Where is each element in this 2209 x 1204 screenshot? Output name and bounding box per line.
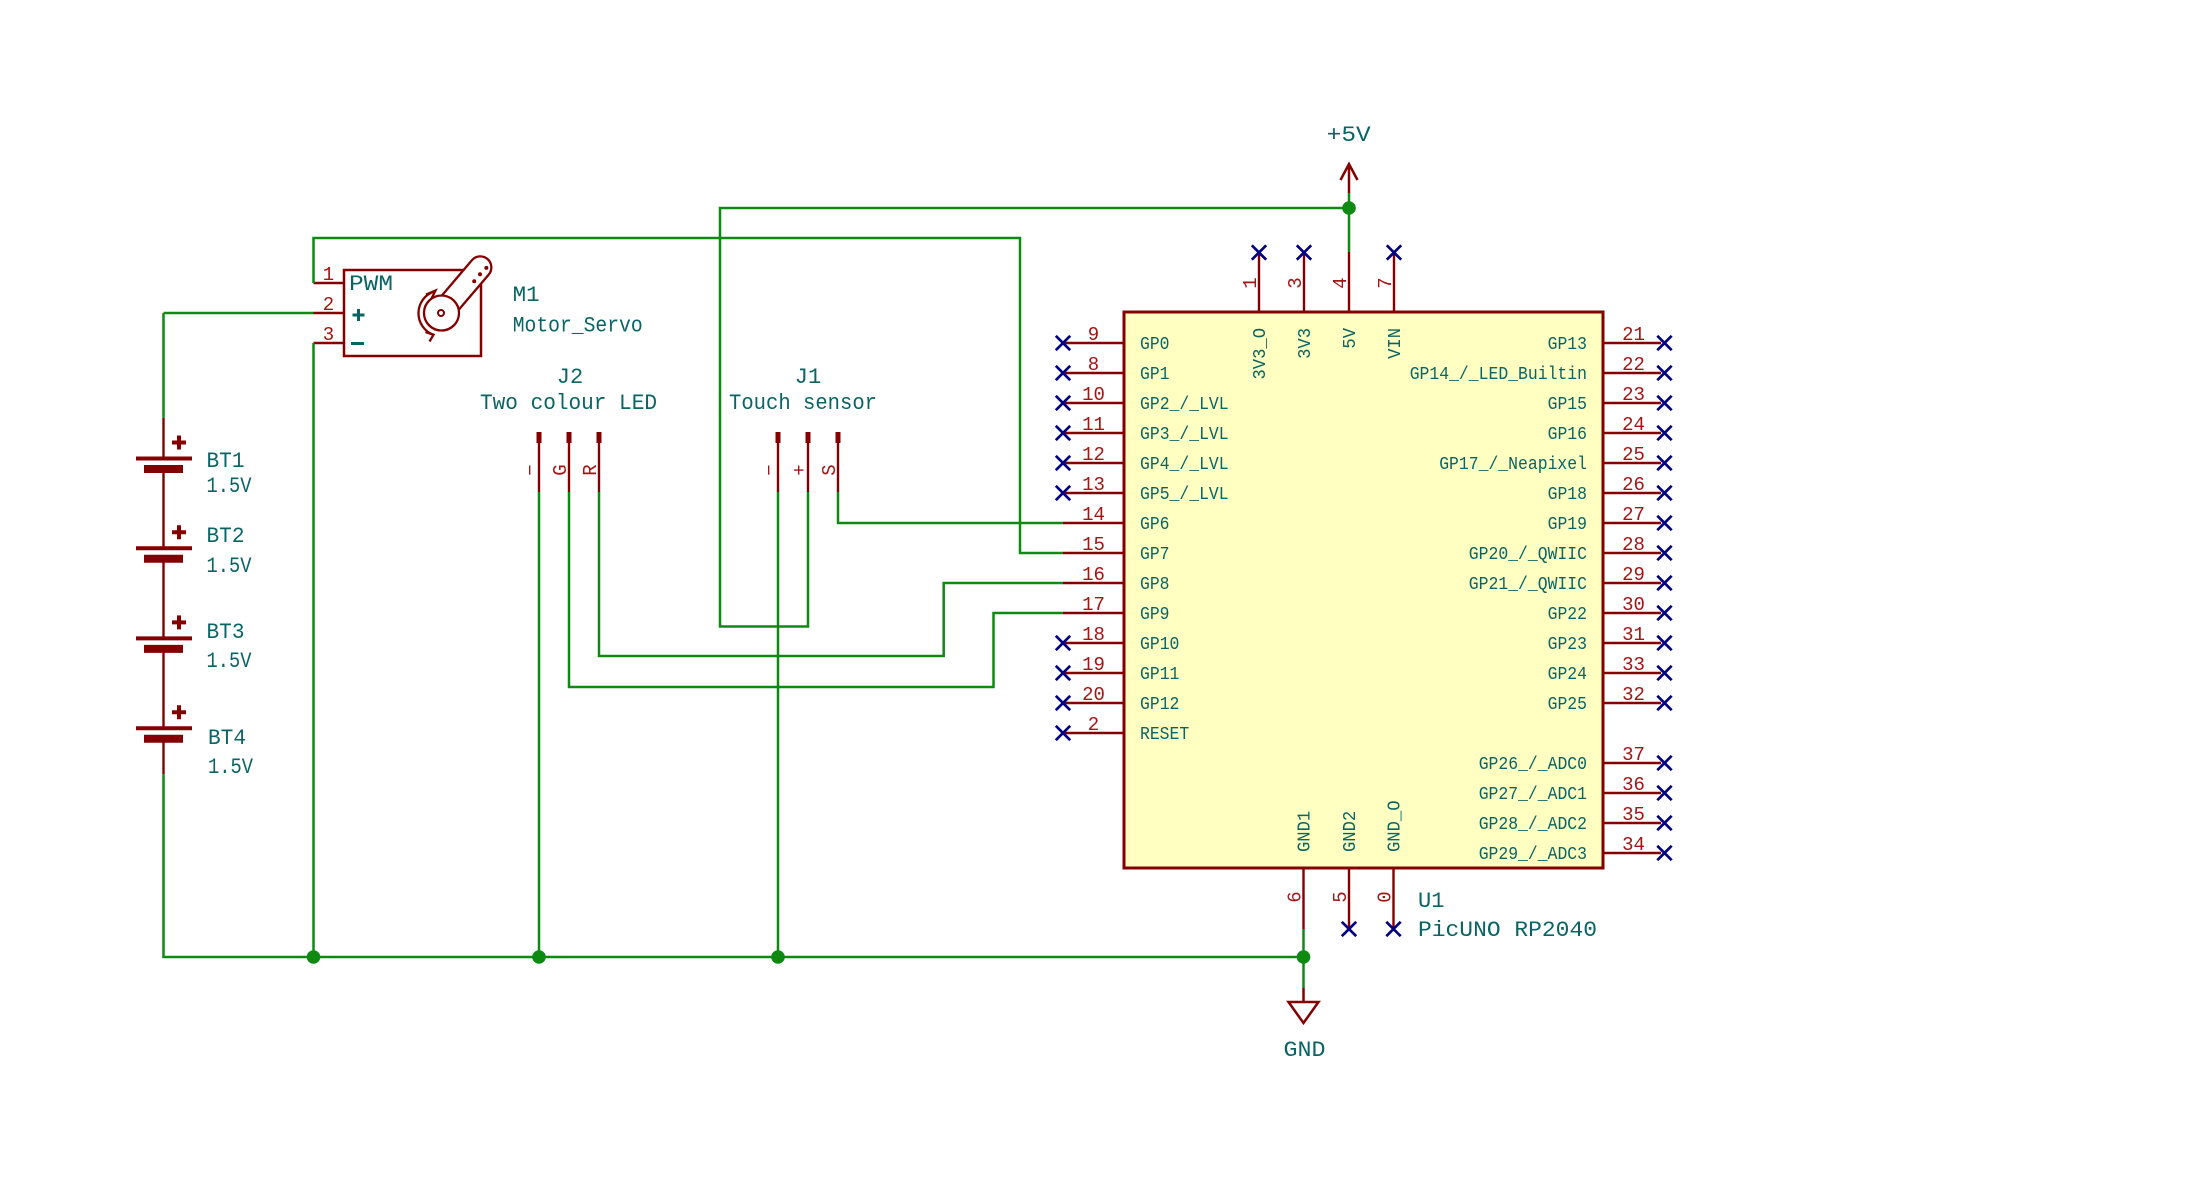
U1 pin 14 GP6 [1063, 504, 1170, 535]
U1 pin 18 GP10 no-connect [1056, 624, 1180, 655]
svg-text:18: 18 [1082, 624, 1105, 646]
wire GND1 to ground [1302, 929, 1305, 988]
svg-text:GP26_/_ADC0: GP26_/_ADC0 [1479, 755, 1587, 775]
svg-text:GP24: GP24 [1548, 665, 1587, 685]
U1 pin 28 GP20_/_QWIIC no-connect [1469, 534, 1672, 565]
svg-text:1.5V: 1.5V [207, 554, 253, 579]
svg-text:25: 25 [1622, 444, 1645, 466]
svg-text:+5V: +5V [1327, 123, 1372, 148]
svg-text:30: 30 [1622, 594, 1645, 616]
M1 pin name + [353, 309, 365, 321]
U1 pin 35 GP28_/_ADC2 no-connect [1479, 804, 1672, 835]
svg-text:1.5V: 1.5V [208, 755, 254, 780]
svg-text:GP18: GP18 [1548, 485, 1587, 505]
J1 pin + [789, 432, 811, 492]
svg-text:GP9: GP9 [1140, 605, 1170, 625]
U1 pin 24 GP16 no-connect [1548, 414, 1672, 445]
svg-text:9: 9 [1088, 324, 1099, 346]
svg-text:GP20_/_QWIIC: GP20_/_QWIIC [1469, 545, 1587, 565]
wire ground bus [164, 774, 1304, 957]
svg-text:11: 11 [1082, 414, 1105, 436]
svg-text:23: 23 [1622, 384, 1645, 406]
svg-text:GP8: GP8 [1140, 575, 1170, 595]
wire J2 G to GP9 [569, 492, 1063, 687]
U1 pin 11 GP3_/_LVL no-connect [1056, 414, 1229, 445]
svg-text:BT1: BT1 [207, 449, 245, 474]
wire M1 PWM to GP7 [314, 238, 1064, 553]
U1 pin 29 GP21_/_QWIIC no-connect [1469, 564, 1672, 595]
svg-text:GND1: GND1 [1296, 811, 1316, 852]
svg-text:7: 7 [1375, 277, 1397, 288]
U1 reference and value labels [1418, 889, 1597, 943]
junction [1342, 201, 1356, 215]
U1 pin 15 GP7 [1063, 534, 1170, 565]
svg-text:PicUNO RP2040: PicUNO RP2040 [1418, 918, 1597, 943]
connector J2 labels [480, 365, 657, 416]
svg-text:GP3_/_LVL: GP3_/_LVL [1140, 425, 1229, 445]
svg-text:U1: U1 [1418, 889, 1444, 914]
svg-text:GP23: GP23 [1548, 635, 1587, 655]
svg-text:1.5V: 1.5V [207, 649, 253, 674]
svg-text:28: 28 [1622, 534, 1645, 556]
svg-text:GND2: GND2 [1341, 811, 1361, 852]
U1 pin 25 GP17_/_Neapixel no-connect [1439, 444, 1672, 475]
svg-text:GP4_/_LVL: GP4_/_LVL [1140, 455, 1229, 475]
svg-text:3V3_O: 3V3_O [1251, 328, 1271, 380]
U1 pin 26 GP18 no-connect [1548, 474, 1672, 505]
svg-text:−: − [520, 464, 542, 475]
svg-text:1: 1 [323, 264, 334, 286]
battery BT1 [136, 436, 252, 500]
U1 pin 31 GP23 no-connect [1548, 624, 1672, 655]
svg-text:S: S [819, 464, 841, 475]
svg-text:35: 35 [1622, 804, 1645, 826]
U1 pin 13 GP5_/_LVL no-connect [1056, 474, 1229, 505]
svg-text:GP19: GP19 [1548, 515, 1587, 535]
J2 pin − [520, 432, 542, 492]
svg-text:GP28_/_ADC2: GP28_/_ADC2 [1479, 815, 1587, 835]
svg-text:16: 16 [1082, 564, 1105, 586]
wire battery top [162, 313, 165, 418]
power symbol +5V [1327, 123, 1372, 193]
IC U1 body [1124, 312, 1603, 868]
U1 pin 23 GP15 no-connect [1548, 384, 1672, 415]
motor-servo M1 body [344, 256, 491, 356]
U1 pin 36 GP27_/_ADC1 no-connect [1479, 774, 1672, 805]
svg-text:+: + [789, 464, 811, 475]
connector J1 labels [729, 365, 877, 416]
battery BT3 [136, 615, 252, 674]
svg-text:GP15: GP15 [1548, 395, 1587, 415]
junction [307, 950, 321, 964]
svg-text:1: 1 [1240, 277, 1262, 288]
svg-text:10: 10 [1082, 384, 1105, 406]
wire +5V to J1+ [720, 208, 1349, 627]
svg-text:GP1: GP1 [1140, 365, 1170, 385]
svg-text:32: 32 [1622, 684, 1645, 706]
svg-text:G: G [550, 464, 572, 475]
wire J2- to bus [538, 492, 541, 957]
svg-text:GP0: GP0 [1140, 335, 1170, 355]
junction [1297, 950, 1311, 964]
J2 pin G [550, 432, 572, 492]
battery BT4 [136, 705, 254, 780]
U1 pin 21 GP13 no-connect [1548, 324, 1672, 355]
svg-text:21: 21 [1622, 324, 1645, 346]
svg-text:−: − [759, 464, 781, 475]
U1 pin 6 GND1 [1285, 811, 1316, 929]
svg-text:34: 34 [1622, 834, 1645, 856]
svg-text:GP21_/_QWIIC: GP21_/_QWIIC [1469, 575, 1587, 595]
svg-text:22: 22 [1622, 354, 1645, 376]
svg-text:VIN: VIN [1386, 328, 1406, 359]
wire J2 R to GP8 [599, 492, 1063, 656]
svg-text:GP29_/_ADC3: GP29_/_ADC3 [1479, 845, 1587, 865]
svg-text:12: 12 [1082, 444, 1105, 466]
U1 pin 2 RESET no-connect [1056, 714, 1190, 745]
U1 pin 33 GP24 no-connect [1548, 654, 1672, 685]
U1 pin 0 GND_O no-connect [1375, 801, 1406, 937]
U1 pin 8 GP1 no-connect [1056, 354, 1170, 385]
svg-text:GP7: GP7 [1140, 545, 1170, 565]
U1 pin 3 3V3 no-connect [1285, 245, 1316, 359]
svg-text:13: 13 [1082, 474, 1105, 496]
wire J1- to bus [777, 492, 780, 957]
svg-text:2: 2 [1088, 714, 1099, 736]
J2 pin R [580, 432, 602, 492]
svg-text:4: 4 [1330, 277, 1352, 288]
svg-text:15: 15 [1082, 534, 1105, 556]
svg-text:31: 31 [1622, 624, 1645, 646]
J1 pin S [819, 432, 841, 492]
svg-text:GP12: GP12 [1140, 695, 1179, 715]
wire J1 S to GP6 [838, 492, 1063, 523]
svg-text:BT2: BT2 [207, 524, 245, 549]
svg-text:GP13: GP13 [1548, 335, 1587, 355]
svg-text:33: 33 [1622, 654, 1645, 676]
wire BT1+ to M1 pin2 [164, 312, 314, 315]
U1 pin 34 GP29_/_ADC3 no-connect [1479, 834, 1672, 865]
svg-text:1.5V: 1.5V [207, 474, 253, 499]
junction [532, 950, 546, 964]
U1 pin 20 GP12 no-connect [1056, 684, 1180, 715]
U1 pin 7 VIN no-connect [1375, 245, 1406, 359]
svg-text:6: 6 [1285, 891, 1307, 902]
U1 pin 9 GP0 no-connect [1056, 324, 1170, 355]
svg-text:GP25: GP25 [1548, 695, 1587, 715]
svg-text:GP17_/_Neapixel: GP17_/_Neapixel [1439, 455, 1587, 475]
U1 pin 27 GP19 no-connect [1548, 504, 1672, 535]
svg-text:Touch sensor: Touch sensor [729, 391, 877, 416]
svg-text:17: 17 [1082, 594, 1105, 616]
svg-text:GND: GND [1284, 1038, 1326, 1063]
svg-text:J2: J2 [557, 365, 583, 390]
J1 pin − [759, 432, 781, 492]
svg-text:GP2_/_LVL: GP2_/_LVL [1140, 395, 1229, 415]
svg-text:GP22: GP22 [1548, 605, 1587, 625]
svg-text:27: 27 [1622, 504, 1645, 526]
svg-text:R: R [580, 464, 602, 475]
svg-text:Motor_Servo: Motor_Servo [513, 314, 643, 339]
wire +5V to pin4 [1348, 193, 1351, 252]
U1 pin 32 GP25 no-connect [1548, 684, 1672, 715]
U1 pin 22 GP14_/_LED_Builtin no-connect [1410, 354, 1672, 385]
svg-text:GND_O: GND_O [1386, 801, 1406, 853]
svg-text:37: 37 [1622, 744, 1645, 766]
U1 pin 5 GND2 no-connect [1330, 811, 1361, 936]
M1 pin 2 + [314, 294, 345, 316]
svg-text:14: 14 [1082, 504, 1105, 526]
M1 pin 1 PWM [314, 264, 345, 286]
svg-text:GP27_/_ADC1: GP27_/_ADC1 [1479, 785, 1587, 805]
U1 pin 4 5V [1330, 252, 1361, 349]
U1 pin 12 GP4_/_LVL no-connect [1056, 444, 1229, 475]
U1 pin 17 GP9 [1063, 594, 1170, 625]
M1 pin name - [351, 342, 364, 345]
svg-text:3: 3 [323, 324, 334, 346]
svg-text:3: 3 [1285, 277, 1307, 288]
svg-text:5V: 5V [1341, 328, 1361, 349]
svg-text:GP16: GP16 [1548, 425, 1587, 445]
svg-text:GP10: GP10 [1140, 635, 1179, 655]
U1 pin 16 GP8 [1063, 564, 1170, 595]
svg-text:24: 24 [1622, 414, 1645, 436]
svg-text:J1: J1 [795, 365, 821, 390]
svg-text:GP6: GP6 [1140, 515, 1170, 535]
battery BT2 [136, 524, 252, 579]
svg-text:GP5_/_LVL: GP5_/_LVL [1140, 485, 1229, 505]
svg-text:2: 2 [323, 294, 334, 316]
svg-text:RESET: RESET [1140, 725, 1189, 745]
svg-text:8: 8 [1088, 354, 1099, 376]
svg-text:26: 26 [1622, 474, 1645, 496]
svg-text:GP11: GP11 [1140, 665, 1179, 685]
svg-text:GP14_/_LED_Builtin: GP14_/_LED_Builtin [1410, 365, 1587, 385]
U1 pin 10 GP2_/_LVL no-connect [1056, 384, 1229, 415]
M1 reference and value labels [513, 283, 643, 339]
svg-text:0: 0 [1375, 891, 1397, 902]
svg-text:BT3: BT3 [207, 620, 245, 645]
M1 pin 3 − [314, 324, 345, 346]
U1 pin 19 GP11 no-connect [1056, 654, 1180, 685]
svg-text:29: 29 [1622, 564, 1645, 586]
svg-text:3V3: 3V3 [1296, 328, 1316, 359]
battery lead wire segments [162, 418, 164, 774]
junction [771, 950, 785, 964]
wire M1- to bus [312, 343, 315, 957]
svg-text:20: 20 [1082, 684, 1105, 706]
svg-text:36: 36 [1622, 774, 1645, 796]
U1 pin 1 3V3_O no-connect [1240, 245, 1271, 379]
svg-text:M1: M1 [513, 283, 540, 308]
svg-text:19: 19 [1082, 654, 1105, 676]
svg-text:5: 5 [1330, 891, 1352, 902]
ground symbol GND [1284, 988, 1326, 1063]
svg-text:PWM: PWM [349, 272, 393, 297]
svg-text:BT4: BT4 [208, 726, 246, 751]
svg-text:Two colour LED: Two colour LED [480, 391, 657, 416]
U1 pin 37 GP26_/_ADC0 no-connect [1479, 744, 1672, 775]
U1 pin 30 GP22 no-connect [1548, 594, 1672, 625]
